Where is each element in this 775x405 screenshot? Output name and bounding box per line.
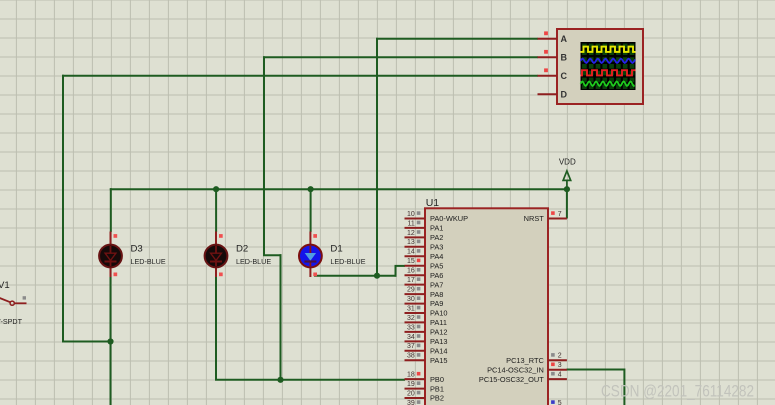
U1 pin 19 (PB1): [405, 381, 444, 393]
svg-text:37: 37: [407, 343, 415, 350]
wire rail drop to D3 anode: [110, 188, 112, 232]
wire D2 cathode vertical: [215, 277, 217, 380]
wire scope-C horizontal (node C to oscilloscope channel C): [62, 75, 538, 77]
LED D2 (LED-BLUE): [205, 232, 228, 278]
wire D1 cathode horizontal: [314, 275, 397, 277]
junction rail/VDD: [564, 186, 570, 192]
svg-text:D1: D1: [330, 244, 342, 255]
wire scope-B vertical drop: [263, 56, 265, 255]
svg-text:PB2: PB2: [430, 394, 444, 403]
svg-text:D2: D2: [236, 244, 248, 255]
junction rail/D1: [308, 186, 314, 192]
U1 pin 15 (PA5): [405, 258, 444, 270]
wire VDD junction down to NRST: [566, 188, 568, 218]
svg-text:PA13: PA13: [430, 337, 448, 346]
svg-text:V1: V1: [0, 280, 10, 291]
svg-text:PC13_RTC: PC13_RTC: [506, 356, 544, 365]
svg-text:12: 12: [407, 230, 415, 237]
svg-text:19: 19: [407, 381, 415, 388]
svg-text:34: 34: [407, 334, 415, 341]
oscilloscope pin D: [538, 90, 568, 100]
svg-text:LED-BLUE: LED-BLUE: [131, 257, 166, 266]
wire D1 net jog up: [395, 266, 397, 277]
U1 pin 34 (PA13): [405, 334, 448, 346]
svg-text:LED-BLUE: LED-BLUE: [330, 257, 365, 266]
wire to U1 pin PB0: [280, 379, 406, 381]
U1 pin 13 (PA3): [405, 239, 444, 251]
U1 pin 31 (PA10): [405, 305, 448, 317]
svg-text:10: 10: [407, 211, 415, 218]
U1 pin 14 (PA4): [405, 249, 444, 261]
wire scope-B jog horizontal: [263, 254, 282, 256]
svg-text:5: 5: [558, 400, 562, 405]
U1 pin 37 (PA14): [405, 343, 448, 355]
U1 pin 18 (PB0): [405, 372, 444, 384]
svg-text:VDD: VDD: [559, 158, 576, 167]
LED D1 (LED-BLUE, lit): [299, 232, 322, 278]
svg-text:PC15-OSC32_OUT: PC15-OSC32_OUT: [479, 375, 544, 384]
svg-text:B: B: [561, 53, 568, 63]
wire to U1 pin PA5: [395, 265, 406, 267]
svg-text:PB1: PB1: [430, 384, 444, 393]
waveform channel B (blue sine wave): [581, 59, 636, 63]
svg-text:PA4: PA4: [430, 252, 443, 261]
U1 pin 12 (PA2): [405, 230, 444, 242]
svg-text:15: 15: [407, 258, 415, 265]
oscilloscope pin A: [538, 31, 568, 44]
U1 pin 2 (PC13_RTC): [506, 353, 567, 365]
waveform channel A (yellow square wave): [581, 47, 636, 52]
LED D3 (LED-BLUE): [99, 232, 122, 278]
svg-text:PC14-OSC32_IN: PC14-OSC32_IN: [487, 365, 544, 374]
svg-text:7: 7: [558, 211, 562, 218]
svg-text:20: 20: [407, 390, 415, 397]
svg-text:18: 18: [407, 372, 415, 379]
svg-text:U1: U1: [426, 197, 440, 209]
svg-text:PA2: PA2: [430, 233, 443, 242]
svg-text:PA12: PA12: [430, 328, 448, 337]
svg-text:38: 38: [407, 353, 415, 360]
svg-text:17: 17: [407, 277, 415, 284]
U1 pin 7 (NRST): [524, 211, 567, 223]
wire D2 cathode horizontal to junction: [215, 379, 281, 381]
U1 pin 16 (PA6): [405, 268, 444, 280]
wire bottom-left horizontal to D3 cathode line: [62, 341, 111, 343]
U1 pin 5 (PD0-OSC_IN, clipped at bottom): [551, 400, 562, 405]
svg-text:A: A: [561, 34, 568, 44]
svg-text:PB0: PB0: [430, 375, 444, 384]
waveform channel C (red square wave): [581, 70, 636, 75]
svg-text:PA1: PA1: [430, 224, 443, 233]
wire scope-B horizontal (to oscilloscope channel B): [263, 56, 538, 58]
wire scope-B lower vertical drop: [280, 254, 282, 380]
junction rail/D2: [213, 186, 219, 192]
svg-text:39: 39: [407, 400, 415, 405]
svg-text:LED-BLUE: LED-BLUE: [236, 257, 271, 266]
svg-text:PA14: PA14: [430, 347, 448, 356]
wire U1 pin PC14 to right then down off-screen: [567, 369, 625, 371]
svg-text:PA10: PA10: [430, 309, 448, 318]
svg-text:2: 2: [558, 353, 562, 360]
svg-text:13: 13: [407, 239, 415, 246]
U1 pin 29 (PA8): [405, 287, 444, 299]
svg-text:SW-SPDT: SW-SPDT: [0, 317, 23, 326]
oscilloscope pin C: [538, 68, 568, 81]
svg-text:32: 32: [407, 315, 415, 322]
wire scope-A horizontal (to oscilloscope channel A): [376, 38, 538, 40]
junction at D3 cathode / bottom-left wire: [107, 338, 113, 344]
junction at D1 cathode net: [374, 273, 380, 279]
U1 pin 3 (PC14-OSC32_IN): [487, 362, 567, 374]
VDD power rail horizontal: [110, 188, 567, 190]
svg-text:PA15: PA15: [430, 356, 448, 365]
svg-text:C: C: [561, 71, 568, 81]
svg-text:30: 30: [407, 296, 415, 303]
svg-text:PA5: PA5: [430, 261, 443, 270]
svg-text:D3: D3: [131, 244, 143, 255]
svg-text:PA0-WKUP: PA0-WKUP: [430, 214, 468, 223]
svg-text:PA9: PA9: [430, 299, 443, 308]
oscilloscope body: [557, 29, 643, 104]
svg-text:PA6: PA6: [430, 271, 443, 280]
svg-text:31: 31: [407, 305, 415, 312]
wire scope-A vertical drop: [376, 38, 378, 276]
U1 pin 20 (PB2): [405, 390, 444, 402]
U1 pin 32 (PA11): [405, 315, 447, 327]
svg-text:NRST: NRST: [524, 214, 545, 223]
svg-text:14: 14: [407, 249, 415, 256]
power symbol VDD: [559, 158, 576, 190]
svg-text:11: 11: [408, 220, 415, 227]
svg-text:PA8: PA8: [430, 290, 443, 299]
U1 pin 10 (PA0-WKUP): [405, 211, 469, 223]
svg-text:PA11: PA11: [430, 318, 447, 327]
waveform channel D (green sine wave): [581, 82, 635, 86]
U1 pin 33 (PA12): [405, 324, 448, 336]
svg-text:29: 29: [407, 287, 415, 294]
oscilloscope pin B: [538, 50, 568, 63]
U1 pin 4 (PC15-OSC32_OUT): [479, 372, 567, 384]
svg-text:3: 3: [558, 362, 562, 369]
U1 pin 30 (PA9): [405, 296, 444, 308]
oscilloscope screen: [581, 42, 636, 90]
junction at PB0 net: [277, 377, 283, 383]
svg-text:33: 33: [407, 324, 415, 331]
svg-text:CSDN @2201_76114282: CSDN @2201_76114282: [601, 382, 754, 401]
svg-text:4: 4: [558, 372, 562, 379]
U1 pin 39 (PB3, clipped at bottom): [407, 400, 420, 405]
svg-text:PA7: PA7: [430, 280, 443, 289]
wire rail drop to D2 anode: [215, 188, 217, 232]
wire scope-C vertical left drop: [62, 75, 64, 342]
wire D3 cathode vertical to bottom edge: [110, 277, 112, 405]
MCU U1 body (STM32): [425, 208, 548, 405]
U1 pin 38 (PA15): [405, 353, 448, 365]
switch V1 (SW-SPDT, clipped at left edge): [0, 296, 27, 305]
svg-text:PA3: PA3: [430, 243, 443, 252]
U1 pin 17 (PA7): [405, 277, 444, 289]
svg-text:D: D: [561, 90, 568, 100]
U1 pin 11 (PA1): [405, 220, 444, 232]
svg-text:16: 16: [407, 268, 415, 275]
wire rail drop to D1 anode: [310, 188, 312, 232]
